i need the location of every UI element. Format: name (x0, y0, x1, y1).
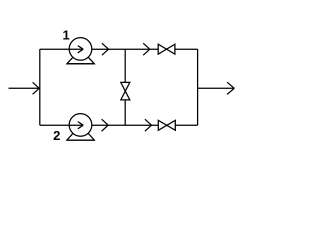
flow arrow after pump 1 (102, 43, 109, 55)
wire bottom branch middle (92, 124, 159, 126)
wire right vertical (merge junction) (197, 49, 199, 125)
wire outlet (198, 87, 235, 89)
pump P1 body (69, 38, 92, 61)
valve V1 (top) (158, 44, 175, 54)
flow arrow before valve V2 (145, 119, 152, 131)
svg-text:2: 2 (53, 128, 60, 143)
valve V2 (bottom) (158, 120, 175, 130)
flow arrow before valve V1 (143, 43, 150, 55)
flow arrow after pump 2 (102, 119, 109, 131)
wire top branch left (40, 48, 81, 50)
wire left vertical (split junction) (39, 49, 41, 125)
pump P2 internal arrow (69, 122, 83, 129)
wire bottom branch left (40, 124, 81, 126)
inlet flow arrow (33, 82, 40, 94)
pump P1 pedestal (67, 49, 94, 64)
svg-text:1: 1 (62, 27, 69, 42)
wire top branch middle (92, 48, 158, 50)
wire top branch right (175, 48, 198, 50)
pump P2 body (69, 114, 92, 137)
outlet flow arrow (227, 82, 234, 94)
valve V3 (bypass, vertical) (121, 82, 130, 100)
wire inlet (9, 87, 40, 89)
wire bottom branch right (175, 124, 197, 126)
wire middle vertical lower (124, 100, 126, 125)
wire middle vertical upper (124, 49, 126, 82)
pump P1 internal arrow (69, 46, 83, 53)
pump P2 pedestal (67, 125, 94, 140)
